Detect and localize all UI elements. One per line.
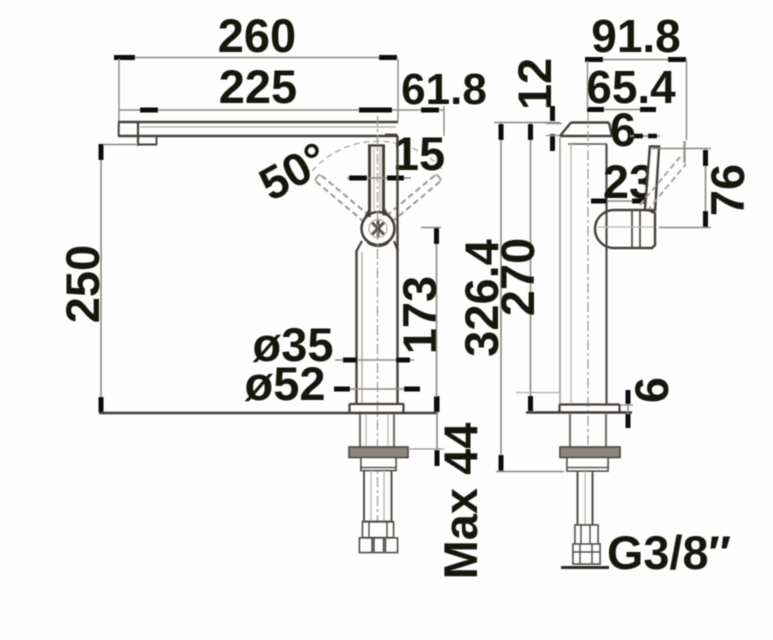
nut side [560,447,620,458]
ball bottom arc [368,242,388,245]
shank side [570,413,606,447]
svg-text:6: 6 [610,103,636,156]
hose crimp [363,522,394,538]
outlet extension line [99,144,138,146]
svg-text:91.8: 91.8 [591,10,681,62]
phantom lever left [315,175,369,222]
dim 76 ext top [652,148,711,150]
dim Max44 line [436,396,438,466]
deck line [99,412,438,415]
phantom lever right tip [435,175,440,181]
extension line left [118,59,120,121]
hose crimp side [575,525,598,544]
top extension line [494,122,560,124]
spout top [118,121,398,124]
swing arc [312,141,444,171]
dim 260 line [114,57,398,59]
lever base flares [365,208,389,217]
collar [361,458,396,471]
neck left [357,241,363,251]
svg-text:76: 76 [701,164,754,216]
phantom lever side [640,157,686,211]
bottom extension line [496,471,564,473]
column side right edge [605,144,607,404]
shank [360,414,394,447]
svg-text:ø52: ø52 [245,357,326,410]
svg-text:G3/8″: G3/8″ [607,526,731,579]
ext 91.8 right [686,61,688,140]
dim 76 line [705,149,707,228]
dim 15 ext [385,134,397,136]
column side left edge [559,137,561,404]
lever side [645,147,659,211]
spout block side [560,123,612,137]
dim 326.4 line [500,123,502,471]
spout inner line [140,126,396,128]
dim 23 line [591,200,648,202]
dim 6 top line [630,135,660,137]
ball housing side [595,210,655,248]
column left edge [355,250,357,404]
phantom lever side tip [683,141,685,163]
dim 225 / 61.8 line [119,109,444,111]
dim 91.8 line [585,59,687,61]
spout outlet cap [137,122,139,146]
column inner line [361,252,363,403]
dim 173 line [436,228,438,414]
dim 12 arrows [546,106,562,151]
svg-text:12: 12 [508,58,561,110]
flange [349,404,404,412]
svg-text:260: 260 [218,9,296,62]
neck right [394,241,398,251]
dim 15 line [347,177,411,179]
svg-text:Max 44: Max 44 [434,423,487,580]
housing inner lines [632,210,640,248]
faint ledge line [516,392,560,394]
ball star [372,220,384,237]
ball joint [362,212,395,245]
svg-text:270: 270 [491,238,544,316]
svg-text:173: 173 [393,276,446,354]
dim 173 ext [421,227,441,229]
dim 250 line [100,144,102,413]
dim 76 ext bottom [659,227,711,229]
svg-text:6: 6 [625,377,678,403]
bottom mark [561,566,609,569]
column side centerline [587,112,589,470]
G38 fitting [573,544,600,564]
spout bottom [118,135,398,138]
spout outlet box [138,136,157,145]
hose side [578,471,593,525]
collar side [567,458,608,472]
dim o52 line [334,388,420,390]
body top line [568,143,607,145]
svg-text:250: 250 [56,245,109,323]
flange side [559,405,620,413]
dim 6 bottom [621,390,633,428]
dim 270 line [530,123,532,412]
phantom lever left tip [315,175,320,181]
dim o35 line [335,359,414,361]
centerline [377,116,379,552]
svg-text:15: 15 [393,127,445,180]
hose nipple boxes [360,538,398,553]
extension line 61.8 right [443,106,445,136]
dim 65.4 line [587,109,656,111]
threaded tube [362,471,393,522]
lever vertical [368,146,385,213]
nut ext line [408,448,444,450]
column side inner [570,144,572,404]
ext 91.8 left [587,61,589,108]
extension line body back [397,59,399,121]
svg-text:225: 225 [219,60,297,113]
phantom lever right [386,175,440,222]
deck line side [526,411,632,414]
column right edge [396,136,398,404]
mounting nut [349,447,408,458]
spout tip cap [118,122,120,136]
